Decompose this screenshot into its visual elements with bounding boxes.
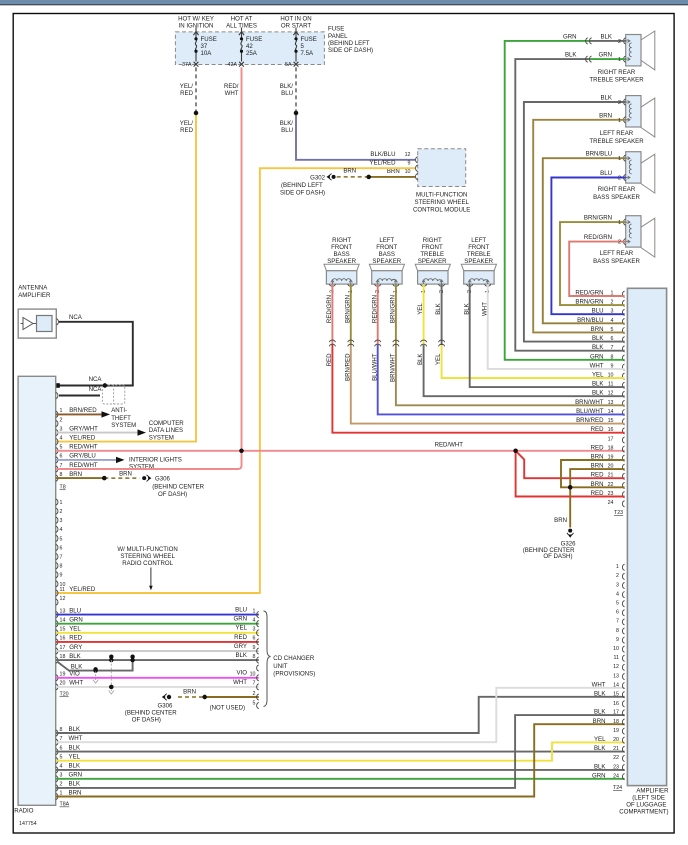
splice fuse42 (239, 449, 243, 453)
svg-text:3: 3 (60, 426, 63, 432)
svg-text:14: 14 (60, 618, 66, 624)
svg-text:4: 4 (60, 435, 63, 441)
svg-text:GRN: GRN (233, 616, 247, 623)
svg-text:BRN/GRN: BRN/GRN (344, 295, 351, 323)
svg-text:BLU: BLU (281, 90, 293, 97)
svg-text:3: 3 (253, 627, 256, 633)
junction on NCA wire (103, 383, 107, 387)
svg-text:BLK: BLK (435, 303, 442, 315)
wire BRN amp5 to LRT pin1 (533, 120, 626, 333)
svg-text:9: 9 (253, 645, 256, 651)
svg-text:ANTI-: ANTI- (111, 407, 127, 414)
wire BLK radio8 to amp15 (56, 697, 625, 733)
svg-text:THEFT: THEFT (111, 415, 131, 422)
svg-text:37A: 37A (182, 62, 192, 68)
svg-text:T23: T23 (614, 510, 623, 516)
svg-text:BRN: BRN (599, 112, 612, 119)
svg-text:FRONT: FRONT (331, 244, 352, 251)
svg-text:19: 19 (613, 728, 619, 734)
wire YEL/RED from splice down to radio pin 4 (56, 113, 196, 442)
left front bass speaker (369, 237, 404, 286)
svg-text:LEFT: LEFT (471, 237, 486, 244)
splice node (294, 111, 298, 115)
svg-text:OF LUGGAGE: OF LUGGAGE (626, 802, 666, 809)
svg-text:GRN: GRN (598, 52, 612, 59)
multi-function steering wheel control module (418, 149, 466, 187)
wire GRY to CD changer pin 9 (56, 650, 259, 652)
svg-text:9: 9 (408, 161, 411, 167)
svg-text:12: 12 (613, 664, 619, 670)
svg-text:T8: T8 (60, 485, 66, 491)
svg-text:17: 17 (608, 436, 614, 442)
pin 6 arc (56, 457, 58, 463)
wire BRN amp pin 22 (570, 486, 624, 488)
wire YEL to CD changer pin 3 (56, 632, 259, 634)
svg-text:19: 19 (60, 672, 66, 678)
svg-text:BLU/WHT: BLU/WHT (371, 353, 378, 381)
wire BRN solid module pin 10 (369, 176, 415, 178)
pin 3 arc (56, 776, 58, 782)
svg-text:6: 6 (253, 636, 256, 642)
wire BLK loop from pin 18 (58, 660, 133, 671)
svg-text:2: 2 (253, 691, 256, 697)
svg-text:CONTROL MODULE: CONTROL MODULE (413, 207, 470, 214)
svg-text:YEL/: YEL/ (180, 120, 194, 127)
svg-text:NCA: NCA (89, 376, 103, 383)
splice to amp pins 21/23 (513, 449, 517, 453)
svg-text:BRN: BRN (119, 470, 132, 477)
wire RED/GRN RFB pin2 (331, 284, 333, 345)
svg-text:RED: RED (180, 90, 193, 97)
svg-text:G302: G302 (310, 174, 326, 181)
svg-text:BLU: BLU (69, 607, 81, 614)
wire YEL/RED dashed from fuse 37 (195, 67, 197, 113)
svg-text:20: 20 (613, 737, 619, 743)
svg-text:7.5A: 7.5A (301, 50, 314, 57)
svg-text:BLU: BLU (235, 607, 247, 614)
svg-text:BLK: BLK (600, 33, 612, 40)
svg-text:ANTENNA: ANTENNA (18, 285, 48, 292)
pin 6 arc (56, 749, 58, 755)
pin 9 (416, 165, 418, 171)
svg-text:FUSE: FUSE (201, 36, 217, 43)
svg-text:18: 18 (613, 719, 619, 725)
inline connector (439, 340, 445, 346)
svg-text:BASS: BASS (333, 251, 349, 258)
svg-text:6: 6 (616, 610, 619, 616)
svg-text:23: 23 (613, 764, 619, 770)
right front bass speaker (324, 237, 359, 286)
wire BLK LFT pin2 to amp pin 11 (470, 284, 625, 387)
pin 12 arc (56, 599, 58, 605)
svg-text:8: 8 (616, 628, 619, 634)
wire BLK RFT pin2 (441, 284, 443, 345)
svg-text:1: 1 (618, 57, 621, 63)
svg-text:BLK: BLK (594, 691, 606, 698)
wire RED/WHT pin7 up to splice (56, 451, 242, 469)
svg-text:RED/GRN: RED/GRN (326, 295, 333, 323)
svg-text:2: 2 (618, 39, 621, 45)
splice node (194, 111, 198, 115)
wire BRN down to ground G326 (569, 487, 571, 527)
right rear treble speaker (589, 31, 654, 84)
splice node (367, 175, 371, 179)
pin 10 (416, 174, 418, 180)
wire WHT to CD changer pin 7 (56, 686, 259, 688)
svg-text:HOT W/ KEY: HOT W/ KEY (178, 16, 214, 23)
svg-text:13: 13 (60, 608, 66, 614)
wire GRN amp8 to RRT connector (505, 41, 625, 360)
svg-text:BRN/GRN: BRN/GRN (584, 215, 612, 222)
svg-text:BLK: BLK (69, 763, 81, 770)
svg-text:TREBLE SPEAKER: TREBLE SPEAKER (589, 138, 644, 145)
pin 11 arc (56, 590, 58, 596)
svg-text:G306: G306 (155, 476, 171, 483)
svg-text:NCA: NCA (89, 386, 103, 393)
pin 18 arc (56, 657, 58, 663)
wire GRN to CD changer pin 4 (56, 623, 259, 625)
svg-text:RIGHT: RIGHT (423, 237, 442, 244)
svg-text:OF DASH): OF DASH) (543, 553, 572, 560)
svg-text:SIDE OF DASH): SIDE OF DASH) (328, 47, 373, 54)
wire RED/GRN amp1 to LRB pin2 (569, 242, 626, 296)
radio box (18, 376, 56, 805)
svg-text:15: 15 (613, 692, 619, 698)
fuse panel box (175, 32, 324, 65)
svg-text:RED/WHT: RED/WHT (435, 441, 464, 448)
svg-text:(LEFT SIDE: (LEFT SIDE (632, 795, 665, 802)
svg-text:STEERING WHEEL: STEERING WHEEL (414, 199, 469, 206)
wire RED/WHT from fuse 42 down to splice at pin5 line (241, 67, 243, 450)
fuse F5 (293, 28, 298, 67)
inline connector (329, 340, 335, 346)
svg-text:FRONT: FRONT (422, 244, 443, 251)
svg-text:BLK: BLK (69, 653, 81, 660)
svg-text:YEL/: YEL/ (180, 83, 194, 90)
svg-text:17: 17 (60, 645, 66, 651)
svg-text:RIGHT REAR: RIGHT REAR (598, 69, 636, 76)
inline connector (421, 340, 427, 346)
svg-text:147754: 147754 (19, 821, 37, 827)
svg-text:7: 7 (253, 681, 256, 687)
svg-text:5: 5 (253, 700, 256, 706)
wire BRN/GRN LFB pin1 (395, 284, 397, 345)
svg-text:7: 7 (60, 736, 63, 742)
svg-text:RED/GRN: RED/GRN (371, 295, 378, 323)
svg-text:6: 6 (60, 545, 63, 551)
wire GRY/WHT to computer data lines (56, 432, 138, 434)
svg-text:16: 16 (60, 636, 66, 642)
svg-text:(BEHIND LEFT: (BEHIND LEFT (281, 182, 323, 189)
svg-text:NCA: NCA (69, 314, 83, 321)
svg-text:8: 8 (60, 472, 63, 478)
svg-text:BRN: BRN (69, 789, 82, 796)
svg-text:BLK/: BLK/ (280, 83, 294, 90)
svg-text:BRN/GRN: BRN/GRN (390, 295, 397, 323)
wire RED/WHT pin5 to amp pin 18 (56, 450, 625, 452)
svg-text:DATA LINES: DATA LINES (149, 427, 183, 434)
svg-text:2: 2 (616, 573, 619, 579)
svg-text:YEL/RED: YEL/RED (369, 160, 396, 167)
svg-text:CD CHANGER: CD CHANGER (273, 655, 315, 662)
svg-text:RED: RED (234, 634, 247, 641)
svg-text:YEL/RED: YEL/RED (69, 586, 96, 593)
svg-text:YEL: YEL (69, 754, 81, 761)
wire GRN RRT pin1 (590, 58, 626, 60)
pin 20 arc (56, 684, 58, 690)
svg-text:20: 20 (60, 681, 66, 687)
svg-text:RADIO CONTROL: RADIO CONTROL (122, 560, 173, 567)
svg-text:2: 2 (618, 100, 621, 106)
svg-text:BRN/RED: BRN/RED (69, 407, 97, 414)
svg-text:5: 5 (60, 445, 63, 451)
wire BLK radio4 to amp23 (56, 769, 625, 771)
wire YEL/RED from radio pin 11 up to module pin 9 (56, 168, 415, 593)
wire BRN dashed to ground (104, 477, 139, 479)
svg-text:2: 2 (60, 417, 63, 423)
wire GRY/BLU to interior lights (56, 459, 116, 461)
splice on WHT wire (ghost) (109, 685, 113, 689)
splice (568, 485, 572, 489)
splice on pin18 wire (130, 658, 134, 662)
svg-text:FRONT: FRONT (376, 244, 397, 251)
pin 4 arc (56, 439, 58, 445)
svg-text:6: 6 (60, 454, 63, 460)
inline connector (348, 340, 354, 346)
pin 17 arc (56, 648, 58, 654)
wire NCA from antenna amplifier to radio (59, 322, 133, 386)
wire RED branch to amp pin 21 (516, 451, 625, 478)
svg-text:BRN/RED: BRN/RED (344, 353, 351, 381)
wire BLK amp6 to LRT pin2 (524, 102, 626, 342)
svg-text:RED: RED (69, 635, 82, 642)
svg-text:INTERIOR LIGHTS: INTERIOR LIGHTS (129, 456, 182, 463)
svg-text:42: 42 (246, 43, 253, 50)
radio NCA pin 2 arc (56, 392, 58, 398)
svg-text:T20: T20 (60, 692, 69, 698)
pin 7 arc (56, 739, 58, 745)
svg-text:4: 4 (616, 591, 619, 597)
right front treble speaker (415, 237, 450, 286)
svg-text:UNIT: UNIT (273, 663, 287, 670)
svg-text:16: 16 (613, 701, 619, 707)
svg-text:RED: RED (180, 127, 193, 134)
svg-text:GRN: GRN (69, 772, 83, 779)
svg-text:21: 21 (613, 746, 619, 752)
wire VIO to CD changer pin 10 (56, 677, 259, 679)
wire WHT radio7 to amp14 (56, 688, 625, 742)
wire BRN solid to CD changer pin 2 (205, 696, 259, 698)
svg-text:RED: RED (591, 444, 604, 451)
wire BRN dashed to ground G302 (336, 176, 369, 178)
svg-text:GRY/WHT: GRY/WHT (69, 425, 98, 432)
wire BLK to amp pin 12 (424, 345, 625, 396)
svg-text:25A: 25A (246, 50, 258, 57)
svg-text:BRN: BRN (343, 167, 356, 174)
svg-text:W/ MULTI-FUNCTION: W/ MULTI-FUNCTION (117, 546, 177, 553)
left rear bass speaker (593, 216, 655, 265)
arrow computer data lines (138, 429, 147, 435)
svg-text:SYSTEM: SYSTEM (149, 434, 174, 441)
CD changer brace (264, 611, 271, 707)
wire YEL RFT pin1 (423, 284, 425, 345)
svg-text:2: 2 (618, 240, 621, 246)
pin 19 arc (56, 675, 58, 681)
svg-text:2: 2 (618, 176, 621, 182)
svg-text:3: 3 (616, 582, 619, 588)
svg-text:MULTI-FUNCTION: MULTI-FUNCTION (416, 191, 467, 198)
svg-text:1: 1 (618, 118, 621, 124)
svg-text:17: 17 (613, 710, 619, 716)
svg-text:FRONT: FRONT (468, 244, 489, 251)
ghost dashed drop from loop splice (95, 671, 97, 681)
wire NCA stub pin 2 (59, 395, 100, 397)
svg-text:8: 8 (60, 564, 63, 570)
svg-text:(NOT USED): (NOT USED) (210, 704, 245, 711)
pin 1 arc (56, 411, 58, 417)
ghost dashed drop from pin18 splice through WHT (110, 660, 112, 691)
svg-text:GRN: GRN (563, 33, 577, 40)
svg-text:BRN: BRN (69, 471, 82, 478)
svg-text:10: 10 (613, 646, 619, 652)
svg-text:9: 9 (616, 637, 619, 643)
wire RED to CD changer pin 6 (56, 641, 259, 643)
pin 14 arc (56, 621, 58, 627)
svg-text:1: 1 (616, 564, 619, 570)
svg-text:RED/: RED/ (224, 83, 239, 90)
svg-text:RADIO: RADIO (14, 807, 34, 814)
svg-text:12: 12 (60, 596, 66, 602)
top blue bar (0, 0, 688, 4)
svg-text:18: 18 (60, 654, 66, 660)
svg-text:11: 11 (614, 655, 620, 661)
ghost connector dashed (102, 385, 124, 404)
svg-text:FUSE: FUSE (246, 36, 262, 43)
svg-text:GRY: GRY (234, 643, 247, 650)
arrow anti-theft (102, 411, 111, 417)
svg-text:RIGHT: RIGHT (332, 237, 351, 244)
wire YEL to amp pin 10 (442, 345, 625, 378)
svg-text:BRN/WHT: BRN/WHT (390, 353, 397, 382)
svg-text:BLK: BLK (594, 709, 606, 716)
svg-text:BLK: BLK (69, 744, 81, 751)
arrow interior lights (116, 457, 125, 463)
right rear bass speaker (593, 152, 655, 201)
svg-text:24: 24 (608, 500, 614, 506)
antenna amp output pin (56, 319, 58, 325)
svg-text:WHT: WHT (69, 680, 83, 687)
svg-text:BLK: BLK (565, 52, 577, 59)
ground G326 (567, 533, 573, 535)
pin 7 arc (56, 466, 58, 472)
svg-text:TREBLE: TREBLE (467, 251, 491, 258)
splice (102, 476, 106, 480)
svg-text:BLK/: BLK/ (280, 120, 294, 127)
wire RED branch to amp pin 23 (516, 451, 625, 497)
svg-text:1: 1 (618, 156, 621, 162)
svg-text:WHT: WHT (225, 90, 239, 97)
svg-text:4: 4 (253, 618, 256, 624)
splice (203, 695, 207, 699)
svg-text:24: 24 (613, 773, 619, 779)
pin 2 arc (56, 785, 58, 791)
inline connector (393, 340, 399, 346)
svg-text:GRN: GRN (592, 772, 606, 779)
wire BRN/GRN amp2 to LRB pin1 (560, 222, 626, 305)
svg-text:T8A: T8A (60, 802, 70, 808)
svg-text:STEERING WHEEL: STEERING WHEEL (120, 553, 175, 560)
svg-text:6: 6 (60, 745, 63, 751)
svg-text:GRN: GRN (69, 617, 83, 624)
wire BLK/BLU to steering wheel module pin 12 (296, 113, 415, 160)
svg-text:TREBLE SPEAKER: TREBLE SPEAKER (589, 77, 644, 84)
wire BRN/WHT to amp pin 13 (396, 345, 625, 405)
svg-text:BRN/BLU: BRN/BLU (586, 151, 612, 158)
svg-text:YEL: YEL (235, 625, 247, 632)
svg-text:RIGHT REAR: RIGHT REAR (598, 186, 636, 193)
svg-text:11: 11 (60, 587, 66, 593)
svg-text:(BEHIND CENTER: (BEHIND CENTER (125, 709, 177, 716)
pin 8 arc (56, 475, 58, 481)
svg-text:(BEHIND LEFT: (BEHIND LEFT (328, 40, 370, 47)
svg-text:WHT: WHT (69, 735, 83, 742)
svg-text:BLK: BLK (71, 663, 83, 670)
svg-text:COMPUTER: COMPUTER (149, 420, 184, 427)
svg-text:(PROVISIONS): (PROVISIONS) (273, 671, 315, 678)
svg-text:BLK: BLK (69, 781, 81, 788)
wire BLK/BLU dashed from fuse 5 (295, 67, 297, 113)
svg-text:LEFT REAR: LEFT REAR (600, 130, 634, 137)
wire GRN radio3 to amp24 (56, 778, 625, 780)
svg-text:OF DASH): OF DASH) (158, 491, 187, 498)
svg-text:AMPLIFIER: AMPLIFIER (18, 292, 51, 299)
ground G306 for CD changer BRN (165, 694, 167, 700)
svg-text:8: 8 (60, 727, 63, 733)
amplifier box (627, 288, 666, 785)
svg-text:BLK: BLK (600, 95, 612, 102)
wire WHT LFT pin1 to amp pin 9 (488, 284, 625, 369)
pin 2 arc (56, 420, 58, 426)
svg-text:RED/GRN: RED/GRN (584, 234, 612, 241)
wire BLK radio6 to amp21 (56, 751, 625, 753)
svg-text:1: 1 (618, 220, 621, 226)
fuse F42 (239, 28, 244, 67)
svg-text:FUSE: FUSE (301, 36, 317, 43)
svg-text:YEL: YEL (594, 736, 606, 743)
pin 3 arc (56, 430, 58, 436)
svg-text:T24: T24 (613, 785, 622, 791)
svg-text:42A: 42A (228, 62, 238, 68)
wire BLK to CD changer pin 8 (56, 659, 259, 661)
wire BLU amp3 to RRB pin2 (551, 178, 625, 315)
pin 4 arc (56, 767, 58, 773)
svg-text:BASS: BASS (379, 251, 395, 258)
ground G302 (329, 174, 331, 180)
svg-text:BLK: BLK (594, 745, 606, 752)
left front treble speaker (461, 237, 496, 286)
svg-text:4: 4 (60, 764, 63, 770)
svg-text:8: 8 (253, 654, 256, 660)
inline connector (586, 56, 592, 62)
svg-text:37: 37 (201, 43, 208, 50)
svg-text:YEL: YEL (69, 626, 81, 633)
wire BLK radio2 to amp17 (56, 715, 625, 788)
svg-text:YEL: YEL (417, 303, 424, 315)
wire BRN/RED to amp pin 15 (351, 345, 625, 424)
svg-text:1: 1 (253, 608, 256, 614)
inline connector (586, 38, 592, 44)
svg-text:BRN: BRN (593, 718, 606, 725)
